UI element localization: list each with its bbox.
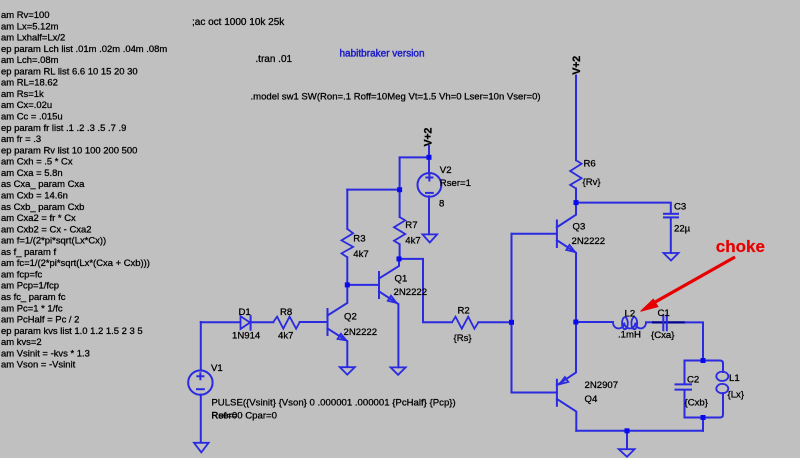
svg-text:Q3: Q3 [573,221,586,232]
svg-text:22µ: 22µ [674,224,691,235]
svg-text:4k7: 4k7 [278,330,293,341]
svg-text:L1: L1 [729,373,740,384]
svg-text:Q2: Q2 [344,312,357,323]
svg-text:R2: R2 [458,306,470,317]
svg-text:D1: D1 [239,307,251,318]
svg-text:L2: L2 [625,309,636,320]
svg-text:{Lx}: {Lx} [728,390,745,401]
svg-text:{Cxb}: {Cxb} [685,398,709,409]
svg-text:{Rv}: {Rv} [583,177,602,188]
svg-text:{Rs}: {Rs} [454,333,473,344]
svg-text:8: 8 [439,199,444,210]
svg-text:Ref=0: Ref=0 [211,410,237,421]
svg-text:.1mH: .1mH [618,330,641,341]
svg-text:{Cxa}: {Cxa} [651,330,675,341]
svg-text:2N2222: 2N2222 [344,327,378,338]
svg-text:Q1: Q1 [395,274,408,285]
svg-text:C3: C3 [674,202,686,213]
svg-text:Q4: Q4 [585,394,598,405]
svg-text:Rser=1: Rser=1 [440,178,471,189]
svg-text:R7: R7 [405,220,417,231]
svg-text:V1: V1 [211,363,223,374]
svg-text:1N914: 1N914 [232,330,261,341]
svg-text:V+2: V+2 [423,128,435,147]
svg-text:C2: C2 [687,375,699,386]
svg-text:R6: R6 [584,159,596,170]
svg-text:2N2222: 2N2222 [394,287,428,298]
svg-text:PULSE({Vsinit} {Vson} 0 .00000: PULSE({Vsinit} {Vson} 0 .000001 .000001 … [211,397,455,408]
svg-text:2N2907: 2N2907 [585,380,619,391]
svg-text:R3: R3 [353,234,365,245]
svg-text:2N2222: 2N2222 [572,236,606,247]
svg-text:R8: R8 [280,307,292,318]
svg-text:4k7: 4k7 [405,236,420,247]
svg-text:C1: C1 [658,308,670,319]
svg-text:V+2: V+2 [571,56,583,75]
svg-text:choke: choke [716,237,765,256]
svg-text:4k7: 4k7 [353,249,368,260]
svg-text:V2: V2 [440,165,452,176]
